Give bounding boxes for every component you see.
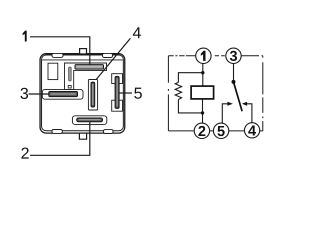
small grey bar	[69, 67, 72, 81]
pin 2 slot outline	[72, 116, 106, 125]
small rectangle window top-left	[48, 63, 58, 79]
leader line label 4	[96, 38, 130, 79]
resistor R	[175, 82, 181, 99]
svg-text:2: 2	[21, 146, 30, 163]
wire terminal1 down	[202, 64, 204, 87]
pin 2 slot bar	[77, 118, 103, 122]
svg-text:3: 3	[229, 49, 237, 65]
digit 1 in circle	[201, 51, 206, 61]
leader line label 5	[119, 92, 132, 94]
terminal circle 2	[194, 123, 209, 138]
top edge notch right	[103, 53, 113, 57]
relay body outer outline	[40, 54, 125, 133]
top edge notch left	[52, 53, 63, 57]
junction dot upper	[201, 71, 204, 74]
svg-text:3: 3	[20, 86, 29, 103]
svg-text:4: 4	[133, 25, 142, 42]
contact arrow left	[227, 102, 233, 106]
terminal circle 3	[226, 48, 241, 63]
relay body inner outline	[42, 55, 124, 131]
wire terminal 5 up to contact	[222, 104, 228, 123]
leader line label 2	[30, 122, 90, 156]
terminal circle 1	[196, 48, 211, 63]
svg-text:2: 2	[198, 124, 206, 140]
wire terminal 3 down to pivot	[233, 64, 235, 82]
pin 5 bottom square	[112, 100, 123, 111]
leader line label 1	[30, 37, 90, 65]
label 1	[23, 31, 27, 42]
svg-text:5: 5	[217, 124, 225, 140]
terminal circle 4	[244, 123, 259, 138]
svg-text:4: 4	[248, 123, 256, 139]
pin 4 slot outline	[88, 80, 97, 111]
body seam line	[42, 59, 123, 61]
dash-dot enclosure border	[168, 56, 262, 131]
pin 5 slot bar	[115, 76, 119, 108]
bottom edge notch right	[104, 130, 114, 134]
tiny square in channel	[68, 85, 71, 88]
top mounting tab	[80, 49, 87, 55]
border bottom	[168, 130, 262, 132]
svg-text:5: 5	[134, 86, 143, 103]
border left	[167, 56, 169, 131]
pin 3 slot bar	[49, 92, 78, 97]
bottom mounting tab	[79, 133, 86, 139]
pin 5 top square	[112, 74, 123, 84]
wire junction to resistor	[178, 73, 202, 83]
border top	[168, 55, 262, 57]
junction dot lower	[201, 111, 204, 114]
border right	[262, 56, 264, 131]
L-shaped guide outline	[65, 63, 107, 89]
pivot dot	[232, 80, 236, 84]
wire coil bottom to terminal 2	[202, 99, 204, 123]
contact arrow right	[242, 102, 247, 106]
pin 1 slot bar	[75, 65, 104, 70]
pin 3 slot outline	[42, 89, 83, 99]
bottom edge notch left	[52, 130, 62, 134]
pin 4 slot bar	[91, 82, 95, 107]
leader line label 3	[29, 93, 50, 95]
terminal circle 5	[213, 123, 228, 138]
coil box	[191, 86, 214, 99]
wire resistor bottom to junction 2	[178, 100, 202, 113]
body top edge reinforcement	[46, 53, 120, 55]
switch blade	[234, 82, 243, 111]
wire terminal 4 up to contact	[247, 104, 252, 124]
